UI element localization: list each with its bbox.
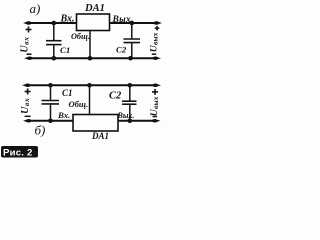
svg-text:б): б): [35, 123, 46, 138]
minus sign left (circuit a): [27, 53, 32, 55]
junction dot C2 top (circuit a): [130, 21, 135, 26]
junction dot common wire (circuit b): [87, 83, 92, 88]
IC DA1 box (circuit a): [77, 14, 110, 31]
minus sign right (circuit a): [152, 53, 156, 55]
svg-text:Uвых: Uвых: [149, 96, 160, 116]
svg-text:С1: С1: [60, 45, 70, 55]
svg-text:С2: С2: [109, 90, 122, 101]
junction dot C2 bottom (circuit a): [128, 56, 133, 61]
junction dot C2 bottom (circuit b): [128, 119, 133, 124]
svg-text:Рис. 2: Рис. 2: [3, 148, 33, 159]
plus sign left (circuit a): [26, 27, 32, 33]
svg-text:Вх.: Вх.: [57, 110, 70, 120]
capacitor C1 (circuit a): [46, 23, 62, 58]
svg-text:Общ.: Общ.: [69, 99, 89, 109]
junction dot C1 top (circuit b): [48, 83, 53, 88]
svg-text:Общ.: Общ.: [71, 32, 90, 41]
junction dot C1 bottom (circuit a): [52, 56, 57, 61]
minus sign left (circuit b): [25, 115, 31, 117]
top rail (+) of circuit a with outward arrows: [23, 21, 162, 25]
top rail (+) of circuit b with outward arrows: [22, 84, 161, 88]
junction dot C1 top (circuit a): [52, 21, 57, 26]
bottom rail (−) of circuit a with outward arrows: [24, 56, 161, 60]
bottom rail (−) of circuit b with outward arrows: [23, 119, 161, 123]
svg-text:Вых.: Вых.: [117, 111, 135, 120]
capacitor C2 (circuit b): [122, 85, 137, 121]
svg-text:а): а): [30, 1, 41, 16]
junction dot common wire (circuit a): [88, 56, 93, 61]
svg-text:С2: С2: [116, 45, 127, 55]
junction dot C2 top (circuit b): [128, 83, 133, 88]
IC DA1 box (circuit b): [73, 115, 118, 132]
capacitor C1 (circuit b): [42, 85, 60, 121]
svg-text:Uвх: Uвх: [20, 36, 31, 52]
plus sign right (circuit b): [152, 89, 158, 95]
capacitor C2 (circuit a): [124, 23, 141, 58]
svg-text:Uвых: Uвых: [149, 32, 160, 52]
plus sign left (circuit b): [25, 89, 31, 95]
wire DA1 common pin to bottom rail (circuit a): [89, 31, 91, 59]
svg-text:DA1: DA1: [91, 131, 109, 141]
svg-text:DA1: DA1: [84, 3, 105, 14]
svg-text:Uвх: Uвх: [20, 98, 31, 114]
junction dot C1 bottom (circuit b): [48, 119, 53, 124]
svg-text:Вх.: Вх.: [60, 14, 75, 25]
plus sign right (circuit a): [155, 26, 160, 31]
wire DA1 common pin to top rail (circuit b): [89, 85, 91, 114]
svg-text:С1: С1: [62, 88, 73, 98]
figure caption badge Рис. 2: [1, 146, 38, 159]
minus sign right (circuit b): [153, 116, 158, 118]
